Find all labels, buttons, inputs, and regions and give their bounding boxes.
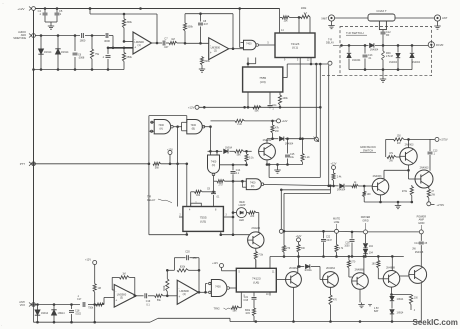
- ground Q8: [358, 289, 364, 307]
- IC U5 7555: [183, 201, 224, 231]
- svg-text:7.5k: 7.5k: [258, 254, 263, 257]
- svg-text:ANT: ANT: [442, 16, 448, 20]
- wire U2c out: [230, 287, 237, 289]
- svg-text:1N4004: 1N4004: [389, 62, 398, 64]
- +12V input terminal: [17, 7, 35, 11]
- wire Q9 collector: [391, 256, 393, 270]
- diode 1N34A: [304, 264, 322, 279]
- resistor 300k: [122, 14, 132, 41]
- wire Q7 emitter: [329, 287, 338, 321]
- wire coax stem: [382, 30, 384, 32]
- wire Q9 emitter: [390, 287, 411, 296]
- svg-text:(4): (4): [183, 292, 186, 296]
- wire latch to U5 pin1: [149, 164, 187, 235]
- svg-text:1N914: 1N914: [397, 313, 404, 315]
- wire Q3 emitter: [409, 165, 415, 179]
- wire Q4 collector: [384, 169, 410, 179]
- wire U2a fb: [112, 277, 135, 296]
- capacitor C17 series: [77, 295, 85, 307]
- svg-text:(A): (A): [159, 127, 163, 130]
- wire 2.2k row: [211, 120, 236, 122]
- svg-text:250k: 250k: [127, 56, 133, 59]
- wire rail 256: [270, 255, 404, 268]
- wire U2b out: [198, 284, 208, 294]
- +12V terminal mid: [277, 119, 288, 123]
- diode 1N914 z2: [390, 310, 404, 322]
- NAND gate U4a: [149, 120, 173, 134]
- wire op-amp1 + input: [107, 47, 133, 50]
- ANT terminal: [434, 15, 447, 21]
- +12V terminal bm: [212, 262, 236, 271]
- svg-text:SeekIC.com: SeekIC.com: [413, 318, 458, 327]
- ground T-R: [380, 70, 386, 83]
- svg-text:3000: 3000: [104, 39, 110, 43]
- transistor Q10 2N4348: [409, 248, 427, 284]
- svg-text:104: 104: [369, 252, 374, 255]
- wire Q10 base: [400, 275, 409, 277]
- wire 150 row: [386, 138, 435, 157]
- capacitor C18: [69, 305, 82, 323]
- POWER AMP GRID terminal: [351, 215, 427, 234]
- svg-text:RF: RF: [386, 34, 390, 37]
- +12V terminal right: [331, 163, 343, 186]
- watermark SeekIC.com: [413, 318, 458, 327]
- MUTE line terminal a: [279, 229, 283, 233]
- svg-text:300k: 300k: [188, 26, 194, 29]
- svg-text:2N4063: 2N4063: [420, 166, 429, 169]
- wire Q1 collector: [267, 139, 278, 143]
- svg-text:1.2k: 1.2k: [305, 156, 310, 159]
- svg-text:COAX T: COAX T: [376, 9, 387, 13]
- svg-text:T-R SWITCH: T-R SWITCH: [346, 31, 364, 35]
- wire mute row: [283, 230, 334, 233]
- wire U2b fb rows: [166, 258, 200, 293]
- wire Q4 emitter: [379, 195, 382, 203]
- resistor 4.7k muteline: [335, 233, 344, 257]
- svg-text:LAMP: LAMP: [239, 204, 246, 207]
- label 1.5V BAT: [368, 305, 379, 313]
- IC U1 74123: [275, 33, 315, 58]
- transistor Q1 2N2222: [259, 139, 276, 160]
- op-amp U1a LM3900: [133, 32, 152, 54]
- ground right: [395, 202, 401, 209]
- svg-text:1N914: 1N914: [225, 146, 233, 149]
- wire TR delay link: [283, 63, 328, 78]
- svg-text:ˈ: ˈ: [1, 324, 2, 328]
- diode 1N4004 shunt a: [347, 45, 361, 69]
- svg-text:GRID: GRID: [418, 222, 424, 225]
- capacitor C13 .01: [363, 45, 374, 69]
- svg-text:+: +: [115, 298, 117, 302]
- svg-text:+: +: [210, 51, 212, 55]
- svg-text:2.5mH: 2.5mH: [386, 55, 393, 58]
- svg-text:(D): (D): [251, 185, 255, 188]
- svg-text:(U1): (U1): [292, 46, 298, 50]
- svg-text:.0047: .0047: [326, 240, 332, 242]
- svg-text:LINE: LINE: [334, 221, 340, 224]
- svg-text:TRIG: TRIG: [214, 306, 220, 310]
- svg-text:1N4004: 1N4004: [337, 188, 346, 191]
- wire coax to ANT: [395, 17, 434, 19]
- resistor 270k: [402, 185, 414, 203]
- resistor 300k fb2: [183, 23, 193, 31]
- wire Q1 emitter: [266, 160, 269, 166]
- capacitor C19: [145, 293, 155, 306]
- resistor 150 2W: [394, 134, 405, 145]
- resistor 56k key: [229, 150, 251, 157]
- svg-text:100: 100: [367, 193, 372, 196]
- svg-text:(U6): (U6): [253, 281, 259, 285]
- U6 pin stubs: [239, 260, 276, 308]
- resistor 680k: [245, 308, 256, 322]
- transistor Q2 2N2222: [248, 227, 264, 248]
- svg-text:˙˙: ˙˙: [2, 2, 4, 6]
- U5 pin stubs: [179, 164, 233, 236]
- wire key rail: [267, 163, 303, 166]
- svg-text:+275V: +275V: [440, 138, 448, 142]
- wire anti-vox line: [36, 298, 115, 306]
- svg-text:820k: 820k: [205, 60, 211, 63]
- capacitor C14b: [414, 242, 428, 245]
- pot 100k: [301, 6, 311, 18]
- svg-text:1N914: 1N914: [58, 312, 66, 315]
- transistor Q3 2N4903: [400, 139, 417, 165]
- inductor RFC: [382, 45, 394, 69]
- resistor 250k: [122, 48, 132, 70]
- wire U4a fb drop: [177, 127, 179, 207]
- svg-text:5.1k: 5.1k: [249, 157, 254, 160]
- svg-text:SWITCH: SWITCH: [363, 149, 373, 153]
- svg-text:1N4004: 1N4004: [285, 142, 294, 145]
- wire 330 to diode row: [297, 257, 300, 268]
- +12V terminal bl: [85, 259, 101, 323]
- svg-text:470: 470: [193, 257, 198, 260]
- wire +12V mid terminal: [188, 105, 322, 109]
- wire cap junction: [45, 22, 57, 24]
- wire 300k feedback top: [89, 7, 157, 43]
- svg-text:(1): (1): [138, 43, 141, 47]
- svg-text:.047: .047: [203, 23, 208, 26]
- svg-text:2N4348: 2N4348: [415, 251, 424, 254]
- resistor 47k 1W: [271, 121, 280, 140]
- PTT input terminal: [20, 162, 36, 166]
- svg-text:LED: LED: [239, 219, 244, 222]
- capacitor C12: [381, 31, 392, 45]
- svg-text:1N914: 1N914: [41, 312, 49, 315]
- resistor 10k top: [280, 16, 301, 22]
- wire Q2 collector: [258, 213, 260, 233]
- svg-text:104: 104: [369, 245, 374, 248]
- wire Q6 emitter: [293, 287, 295, 321]
- resistor 56k av: [155, 294, 178, 302]
- svg-text:750k: 750k: [88, 307, 94, 310]
- capacitor C8: [198, 14, 208, 44]
- svg-text:680k: 680k: [245, 310, 251, 312]
- +270V terminal: [427, 202, 445, 207]
- wire audio line: [36, 34, 114, 48]
- wire op-amp1 output: [152, 42, 163, 45]
- wire mute feed a: [280, 189, 331, 230]
- svg-text:+12V: +12V: [282, 120, 288, 123]
- +12V stub at PTT: [167, 148, 173, 164]
- capacitor C9: [207, 181, 220, 206]
- svg-text:1N914: 1N914: [397, 299, 404, 301]
- diode 1N4004 key: [279, 137, 314, 146]
- resistor 270 osc: [217, 180, 242, 187]
- wire T-R bottom rail: [349, 68, 412, 71]
- wire op-amp2 feedback: [185, 12, 233, 48]
- svg-text:(U5): (U5): [200, 219, 206, 223]
- wire U1 bottom pins: [284, 58, 311, 65]
- svg-text:DELAY: DELAY: [147, 198, 156, 202]
- junction arrow terminal: [314, 137, 319, 142]
- wire vert C13b: [428, 139, 439, 170]
- wire right bottom rail: [364, 201, 412, 204]
- svg-text:220: 220: [250, 215, 255, 218]
- wire vbus b: [315, 64, 317, 137]
- svg-text:C22: C22: [326, 237, 331, 239]
- svg-text:1800: 1800: [80, 39, 86, 43]
- transistor Q4 2N4063: [372, 175, 389, 195]
- label TRIG: [214, 306, 242, 313]
- capacitor C20 470: [185, 250, 197, 260]
- wire +12V top bus: [36, 7, 280, 10]
- wire key row: [208, 127, 223, 155]
- diode 1N914 av2: [51, 305, 65, 323]
- label GRID BLOCK SWITCH: [360, 145, 376, 152]
- svg-text:100k: 100k: [301, 6, 307, 10]
- svg-text:2N4888: 2N4888: [355, 268, 364, 271]
- resistor 270 q8: [347, 256, 356, 277]
- LED lamp: [233, 208, 249, 222]
- svg-text:(B): (B): [192, 127, 196, 130]
- svg-text:C17: C17: [77, 298, 82, 301]
- resistor 47 2W: [427, 186, 435, 202]
- ground XMIT: [328, 21, 334, 29]
- capacitor C7 .047: [163, 38, 169, 50]
- resistor 1M series: [166, 38, 185, 45]
- resistor 7.5k emitter: [254, 248, 264, 268]
- resistor 100 emitter: [363, 186, 372, 202]
- svg-text:(C): (C): [212, 164, 216, 167]
- svg-text:820k: 820k: [180, 266, 186, 269]
- diode 1N4004 shunt c: [410, 45, 421, 69]
- svg-text:.0068: .0068: [78, 57, 85, 60]
- svg-text:+12V: +12V: [331, 163, 337, 166]
- DRIVER GRID terminal: [339, 216, 371, 234]
- wire PTT line: [36, 163, 189, 166]
- resistor 50k: [253, 106, 261, 113]
- svg-text:1N914: 1N914: [61, 51, 69, 54]
- svg-text:+: +: [134, 45, 136, 49]
- svg-text:-: -: [134, 37, 135, 41]
- IC U6 74123: [236, 268, 276, 292]
- +275V terminal: [435, 137, 448, 141]
- svg-text:2.2k: 2.2k: [237, 123, 242, 126]
- NAND gate U4c: [208, 155, 220, 176]
- +12V terminal mute: [296, 235, 306, 258]
- wire to op-amp2: [184, 42, 209, 45]
- svg-text:300k: 300k: [127, 21, 133, 24]
- svg-text:XMIT: XMIT: [321, 16, 328, 20]
- NAND gate U2c: [209, 280, 230, 297]
- transistor Q7 2N4064: [323, 267, 339, 287]
- wire U2a out: [134, 295, 144, 298]
- wire U4d out: [263, 184, 338, 187]
- NAND gate U4b: [182, 120, 205, 134]
- resistor 820k fb: [177, 266, 189, 272]
- AUDIO AND SIDETONE input: [13, 31, 35, 40]
- resistor 1M fb: [119, 273, 129, 279]
- diode 1N914 av1: [35, 305, 49, 323]
- svg-text:820k: 820k: [163, 285, 166, 291]
- wire op-amp2 out: [229, 47, 243, 50]
- capacitor C15 10u: [285, 139, 295, 165]
- wire vbus c: [319, 64, 321, 178]
- ground Q1: [274, 165, 280, 174]
- resistor 820k below op-amp2: [199, 56, 211, 72]
- svg-text:-: -: [210, 43, 211, 47]
- svg-text:+270V: +270V: [437, 203, 445, 207]
- svg-text:DELAY: DELAY: [326, 42, 334, 45]
- svg-text:GRID BLOCK: GRID BLOCK: [360, 145, 376, 149]
- transistor Q9 2N4888: [383, 266, 400, 287]
- COAX T body: [368, 9, 395, 30]
- NAND gate U2a: [240, 40, 259, 50]
- resistor 750k: [88, 303, 104, 310]
- wire rail stub W_A: [269, 165, 320, 178]
- wire T-R row: [342, 44, 429, 47]
- svg-text:BAT: BAT: [374, 310, 379, 313]
- RCVR terminal: [428, 42, 443, 48]
- resistor 820k vert: [163, 270, 169, 296]
- svg-text:SIDETONE: SIDETONE: [13, 37, 26, 40]
- capacitor 3000: [104, 33, 110, 43]
- wire T-R delay drop: [328, 65, 330, 186]
- op-amp U2a: [114, 285, 136, 308]
- resistor 1.2k: [301, 139, 310, 165]
- T-R DELAY terminal: [326, 39, 343, 66]
- wire Q2 base row: [220, 233, 250, 236]
- U3 bottom parts: [247, 92, 250, 109]
- diode 1N914 osc: [224, 146, 233, 153]
- svg-text:2.4k: 2.4k: [337, 176, 342, 179]
- svg-text:2N4064: 2N4064: [289, 267, 298, 270]
- wire Q10 vert: [397, 234, 421, 322]
- transistor Q5 2N4063: [415, 166, 433, 188]
- svg-text:270k: 270k: [402, 190, 408, 193]
- wire U4d inputs: [241, 180, 246, 187]
- T-R DELAY label: [147, 195, 172, 203]
- svg-text:7400: 7400: [215, 285, 221, 288]
- wire U4c right: [220, 164, 248, 167]
- svg-text:1000: 1000: [344, 246, 350, 248]
- svg-text:150: 150: [397, 134, 402, 137]
- svg-text:+12V: +12V: [17, 7, 24, 11]
- diode 1N4004 series: [370, 43, 379, 51]
- diode 1N914 z1: [390, 295, 404, 309]
- capacitor C11: [268, 92, 278, 110]
- transistor Q6 2N4064: [276, 267, 301, 287]
- svg-text:1N4004: 1N4004: [412, 62, 421, 64]
- resistor R 100k: [278, 92, 288, 109]
- wire bottom rail mid: [150, 318, 230, 322]
- svg-text:1N4004: 1N4004: [352, 59, 361, 62]
- svg-text:270: 270: [219, 183, 224, 186]
- svg-text:C16: C16: [345, 243, 350, 245]
- resistor 270 mute: [282, 231, 290, 258]
- svg-text:+: +: [178, 295, 180, 299]
- label RED LED LAMP: [239, 201, 246, 207]
- transistor Q8 2N4888: [352, 268, 369, 289]
- diode CR2 1N914: [55, 36, 69, 70]
- svg-text:10u: 10u: [290, 156, 295, 159]
- wire U4b out: [204, 125, 212, 128]
- wire bottom rail right: [230, 320, 397, 323]
- wire mute feed b: [283, 186, 331, 233]
- T-R SWITCH dashed box: [322, 27, 432, 76]
- resistor 75k: [90, 36, 99, 70]
- wire bus drop to gate: [239, 9, 241, 48]
- op-amp U2b: [177, 280, 198, 304]
- capacitor under op-amp: [102, 48, 111, 70]
- svg-text:C20: C20: [185, 250, 190, 253]
- resistor 47k 2W: [387, 152, 400, 163]
- resistor 56k PTT: [153, 162, 161, 169]
- svg-text:+12V: +12V: [188, 106, 195, 110]
- wire XMIT to coax: [335, 17, 368, 19]
- diode CR1 1N914: [38, 36, 52, 70]
- svg-text:(2): (2): [214, 49, 217, 53]
- svg-text:1M: 1M: [171, 38, 174, 41]
- svg-text:2N4064: 2N4064: [326, 267, 335, 270]
- svg-text:+12V: +12V: [212, 262, 218, 265]
- wire U4c out: [214, 175, 218, 182]
- svg-text:2N2222: 2N2222: [251, 227, 260, 230]
- MUTE line terminal b: [333, 218, 340, 234]
- wire pot to U1: [299, 17, 310, 33]
- IC U3 7555: [243, 67, 283, 92]
- corner mark: [1, 2, 4, 328]
- svg-text:10%: 10%: [245, 313, 250, 315]
- svg-text:1M: 1M: [98, 287, 101, 290]
- diode 1N4004 drive: [337, 184, 346, 192]
- svg-text:-: -: [178, 286, 179, 290]
- zener diodes HEP: [363, 234, 373, 256]
- svg-text:(3): (3): [120, 296, 123, 300]
- svg-text:(U3): (U3): [260, 80, 266, 84]
- svg-text:1N914: 1N914: [44, 51, 52, 54]
- resistor 5.1k: [245, 151, 254, 165]
- resistor 10k osc: [191, 190, 215, 206]
- resistor 1k drive: [345, 181, 372, 187]
- wire latch top: [149, 116, 187, 164]
- capacitor C4: [38, 9, 48, 23]
- svg-text:C14: C14: [414, 243, 419, 245]
- wire Q6 collector: [298, 265, 305, 272]
- resistor 180: [372, 256, 384, 279]
- ground top-left: [48, 24, 54, 29]
- resistor 200: [409, 295, 418, 313]
- capacitor C5: [55, 9, 63, 23]
- svg-text:RCVR: RCVR: [436, 43, 443, 47]
- svg-text:PTT: PTT: [20, 162, 26, 166]
- capacitor C16 1000: [344, 232, 354, 256]
- ANTI VOX input: [19, 301, 35, 307]
- svg-text:7400: 7400: [246, 42, 252, 45]
- capacitor osc 0.1: [231, 165, 241, 236]
- label T-R SWITCH: [346, 31, 367, 35]
